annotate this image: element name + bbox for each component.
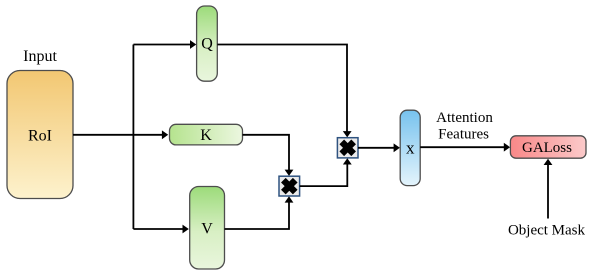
wire Q to multiply M2 bbox=[217, 45, 351, 138]
wire branch to V bbox=[133, 225, 188, 234]
svg-text:Q: Q bbox=[201, 36, 213, 53]
svg-text:GALoss: GALoss bbox=[522, 140, 572, 156]
svg-text:x: x bbox=[406, 139, 415, 158]
K box bbox=[170, 124, 243, 145]
label Attention Features bbox=[436, 110, 493, 143]
wire x box to GALoss bbox=[420, 143, 510, 152]
multiply node M1 bbox=[279, 176, 300, 196]
V box bbox=[190, 187, 225, 270]
wire K to multiply M1 bbox=[243, 135, 294, 176]
wire Object Mask to GALoss bbox=[544, 159, 553, 219]
svg-text:Attention: Attention bbox=[436, 110, 493, 126]
wire branch vertical bbox=[132, 45, 134, 230]
x box bbox=[400, 110, 420, 185]
wire M1 to M2 bbox=[300, 158, 352, 186]
wire branch to Q bbox=[133, 40, 196, 49]
label Input bbox=[23, 48, 57, 65]
multiply node M2 bbox=[337, 138, 358, 158]
Q box bbox=[197, 6, 218, 81]
svg-text:Input: Input bbox=[23, 48, 57, 65]
svg-text:Object Mask: Object Mask bbox=[508, 223, 586, 239]
RoI box bbox=[7, 71, 73, 199]
wire RoI to branch bbox=[73, 134, 133, 136]
GALoss box bbox=[510, 136, 586, 158]
svg-text:K: K bbox=[200, 127, 212, 144]
svg-text:RoI: RoI bbox=[28, 128, 52, 145]
label Object Mask bbox=[508, 223, 586, 239]
svg-text:V: V bbox=[201, 221, 213, 238]
wire V to multiply M1 bbox=[225, 196, 294, 229]
svg-text:Features: Features bbox=[438, 127, 489, 143]
wire branch to K bbox=[133, 130, 168, 139]
wire M2 to x box bbox=[358, 143, 400, 152]
